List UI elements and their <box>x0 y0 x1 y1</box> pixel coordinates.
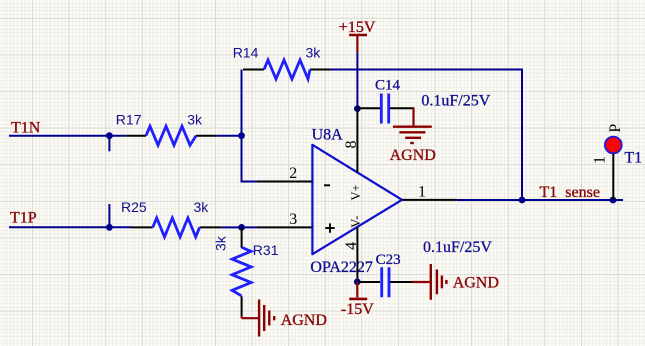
junction T1N/R17 <box>106 132 113 139</box>
capacitor C23 <box>357 267 413 297</box>
wire output to test point <box>457 199 623 201</box>
junction pin4/C23/-15V <box>354 279 361 286</box>
junction +15V/C14/pin8 <box>354 105 361 112</box>
ground AGND (bottom left, for R31) <box>242 300 275 337</box>
pin 2 (inverting input) <box>257 181 312 183</box>
svg-text:R14: R14 <box>233 45 259 61</box>
svg-text:4: 4 <box>343 242 360 250</box>
svg-text:+15V: +15V <box>339 19 376 36</box>
svg-text:T1 sense: T1 sense <box>540 184 600 201</box>
junction R25/R31/pin3 <box>238 224 245 231</box>
test point T1 pad circle <box>605 137 622 154</box>
wire R17 to feedback node <box>216 135 241 137</box>
svg-text:C23: C23 <box>376 252 401 268</box>
svg-text:3: 3 <box>289 211 297 228</box>
junction feedback/output <box>519 197 526 204</box>
ground AGND (top, for C14) <box>393 107 432 143</box>
svg-text:T1N: T1N <box>11 119 41 136</box>
plus symbol pin 3 <box>325 223 334 232</box>
minus symbol pin 2 <box>324 184 330 186</box>
resistor R31 <box>232 227 251 316</box>
pin 8 (V+) <box>356 109 358 173</box>
svg-text:R17: R17 <box>116 111 142 127</box>
resistor R14 <box>243 60 330 79</box>
svg-text:AGND: AGND <box>390 147 436 164</box>
svg-text:3k: 3k <box>306 45 322 61</box>
svg-text:T1: T1 <box>624 150 642 167</box>
svg-text:AGND: AGND <box>453 274 499 291</box>
svg-text:R25: R25 <box>121 199 147 215</box>
junction T1P/R25 <box>106 224 113 231</box>
power port +15V bar <box>349 35 367 53</box>
svg-text:8: 8 <box>343 141 360 149</box>
test point T1 pin <box>612 144 614 200</box>
svg-text:0.1uF/25V: 0.1uF/25V <box>421 93 490 110</box>
svg-text:AGND: AGND <box>281 312 327 329</box>
pin 4 (V-) <box>356 227 358 282</box>
svg-text:1: 1 <box>592 156 609 164</box>
svg-text:U8A: U8A <box>312 127 344 144</box>
capacitor C14 <box>357 94 413 124</box>
svg-text:1: 1 <box>418 184 426 201</box>
svg-text:3k: 3k <box>194 199 210 215</box>
svg-text:2: 2 <box>289 165 297 182</box>
svg-text:V+: V+ <box>349 184 363 200</box>
wire stub above T1P junction <box>108 204 110 227</box>
wire R25 node to pin 3 <box>221 226 257 228</box>
op-amp U8A triangle <box>312 145 402 254</box>
svg-text:3k: 3k <box>187 111 203 127</box>
pin 3 (non-inverting input) <box>257 226 312 228</box>
svg-text:R31: R31 <box>253 242 279 258</box>
wire +15V to pin8 node <box>356 53 358 109</box>
svg-text:OPA2227: OPA2227 <box>310 259 373 276</box>
svg-text:V-: V- <box>349 216 363 228</box>
svg-text:0.1uF/25V: 0.1uF/25V <box>423 239 492 256</box>
wire feedback top and right drop to output <box>330 70 522 201</box>
resistor R17 <box>126 126 216 145</box>
ground AGND (right, for C23) <box>412 264 446 300</box>
pin 1 (output) <box>402 199 457 201</box>
svg-text:P: P <box>607 124 624 133</box>
wire feedback column to op-amp pin 2 <box>242 70 258 182</box>
resistor R25 <box>131 218 221 237</box>
junction R17/feedback column <box>238 132 245 139</box>
svg-text:-15V: -15V <box>341 301 374 318</box>
wire net T1P <box>9 226 131 228</box>
wire stub below T1N junction <box>108 136 110 152</box>
svg-text:C14: C14 <box>375 78 401 94</box>
wire net T1N <box>9 135 126 137</box>
svg-text:3k: 3k <box>213 235 229 251</box>
junction output/test point <box>610 197 617 204</box>
power port -15V bar <box>349 282 367 299</box>
svg-text:T1P: T1P <box>10 210 37 227</box>
